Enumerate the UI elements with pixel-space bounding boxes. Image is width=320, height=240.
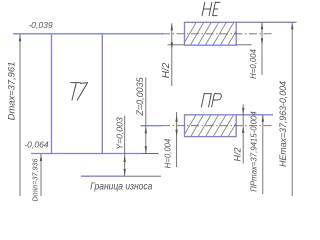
- wire NE bottom extension right: [236, 44, 251, 46]
- dimension Z: [145, 78, 147, 154]
- wire wear limit extension gray: [125, 175, 162, 177]
- node PRmax level line: [236, 114, 273, 116]
- dimension H/2 left of NE: [171, 23, 173, 86]
- gauge NE tolerance zone rectangle: [180, 16, 253, 50]
- svg-text:Y=0,003: Y=0,003: [114, 117, 124, 149]
- svg-text:Dmin=37,936: Dmin=37,936: [31, 159, 40, 202]
- wire PR centerline dash-dot: [162, 125, 272, 127]
- node Dmin line (lower deviation -0,064 level): [31, 153, 141, 155]
- svg-text:ПРmax=37,9415-0,004: ПРmax=37,9415-0,004: [250, 111, 259, 192]
- wire Dmin extension gray: [141, 153, 159, 155]
- dimension Dmin: [40, 154, 42, 196]
- svg-text:H/2: H/2: [161, 62, 172, 78]
- dimension NEmax: [291, 22, 293, 196]
- dimension H left of PR: [175, 112, 177, 167]
- wire Z extension blue: [141, 125, 163, 127]
- node NEmax level line: [236, 21, 296, 23]
- node Dmax line (upper deviation -0,039 level): [13, 33, 163, 35]
- svg-text:НЕmax=37,963-0,004: НЕmax=37,963-0,004: [278, 81, 288, 167]
- dimension PRmax: [262, 115, 264, 194]
- svg-text:-0,064: -0,064: [24, 140, 49, 150]
- label T7: [71, 83, 88, 100]
- dimension Y: [124, 116, 126, 177]
- wire NE centerline dash-dot: [162, 33, 274, 35]
- label NE: [202, 2, 220, 15]
- svg-text:H=0,004: H=0,004: [249, 48, 258, 78]
- wire NE bottom extension left: [168, 44, 185, 46]
- svg-text:H/2: H/2: [233, 147, 243, 161]
- svg-text:Граница износа: Граница износа: [90, 182, 152, 193]
- svg-text:-0,039: -0,039: [28, 20, 53, 30]
- dimension H right of NE: [261, 22, 263, 75]
- svg-text:Dmax=37,961: Dmax=37,961: [5, 62, 16, 121]
- svg-text:H=0,004: H=0,004: [164, 138, 173, 168]
- node wear limit line (granitsa iznosa): [81, 175, 125, 177]
- label PR: [201, 94, 221, 107]
- wire T7 zone right edge: [101, 34, 103, 154]
- dimension Dmax: [19, 34, 21, 196]
- dimension H/2 right of PR: [242, 105, 244, 164]
- gauge PR tolerance zone rectangle: [180, 108, 253, 142]
- svg-text:Z=0,0035: Z=0,0035: [135, 76, 145, 116]
- wire T7 zone left edge: [51, 34, 53, 154]
